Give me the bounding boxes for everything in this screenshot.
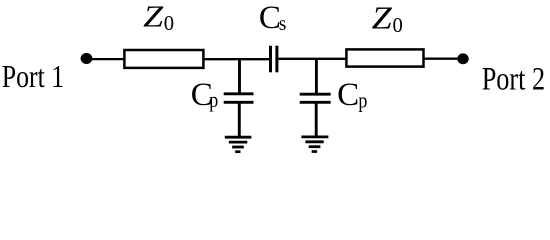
- node Port 1 terminal: [81, 53, 93, 64]
- wire Port1 to TL1: [87, 58, 125, 60]
- wire shunt branch 1 vertical: [238, 59, 241, 93]
- wire series cap to TL2: [278, 58, 346, 60]
- svg-text:p: p: [358, 87, 367, 112]
- ground (right): [301, 137, 328, 152]
- ground (left): [225, 137, 252, 152]
- wire cap to ground 1: [238, 102, 241, 136]
- svg-text:Port 1: Port 1: [2, 58, 64, 94]
- transmission line Z0 (left): [124, 50, 203, 68]
- svg-text:0: 0: [393, 15, 403, 37]
- wire shunt branch 2 vertical: [315, 59, 318, 93]
- svg-text:0: 0: [164, 13, 174, 35]
- node Port 2 terminal: [457, 53, 468, 64]
- svg-text:s: s: [279, 14, 287, 35]
- svg-text:C: C: [259, 0, 281, 36]
- label Cs: [259, 0, 286, 36]
- capacitor Cp (right shunt): [300, 94, 331, 102]
- wire TL2 to Port2: [424, 58, 464, 60]
- label Z0 (left): [143, 0, 174, 35]
- wire cap to ground 2: [315, 102, 318, 136]
- transmission line Z0 (right): [346, 49, 423, 66]
- wire TL1 to series cap: [203, 58, 269, 60]
- svg-text:Port 2: Port 2: [482, 62, 545, 98]
- svg-text:Z: Z: [143, 0, 164, 34]
- capacitor Cp (left shunt): [224, 94, 254, 103]
- label Cp (right): [337, 77, 367, 113]
- svg-text:C: C: [337, 77, 359, 113]
- label Z0 (right): [372, 0, 403, 37]
- svg-text:Z: Z: [372, 0, 393, 35]
- label Cp (left): [191, 77, 219, 113]
- capacitor Cs (series): [271, 46, 277, 73]
- svg-text:p: p: [209, 87, 218, 112]
